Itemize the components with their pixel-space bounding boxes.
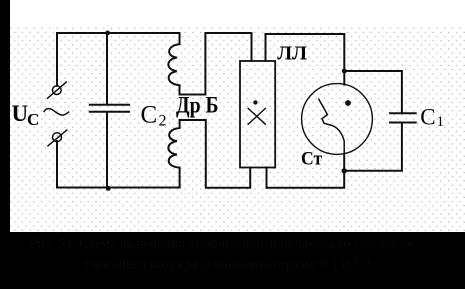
svg-text:Рис. 54. Схема включения люмин: Рис. 54. Схема включения люминесцентной … <box>30 237 415 252</box>
svg-text:C: C <box>141 102 158 129</box>
svg-text:Др Б: Др Б <box>176 92 219 118</box>
svg-text:1: 1 <box>437 114 445 130</box>
svg-text:2: 2 <box>159 113 167 130</box>
svg-text:C: C <box>27 110 39 129</box>
svg-text:ЛЛ: ЛЛ <box>277 43 307 65</box>
svg-text:тлеющего разряда и конденсатор: тлеющего разряда и конденсаторами С1 и С… <box>83 257 371 273</box>
svg-text:Ст: Ст <box>301 148 322 169</box>
svg-text:C: C <box>420 104 435 129</box>
svg-text:U: U <box>12 101 29 126</box>
